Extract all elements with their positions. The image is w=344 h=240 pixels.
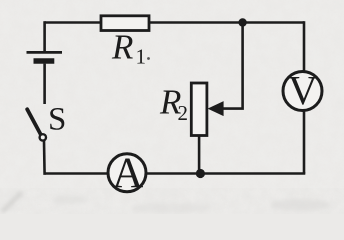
resistor R1 box xyxy=(101,16,149,31)
switch S blade xyxy=(27,109,41,135)
wire right lower (voltmeter down to bottom-right corner) xyxy=(303,112,306,174)
wire bottom right (bottom-right corner to ammeter) xyxy=(147,172,306,175)
wire left upper (top-left corner down to battery) xyxy=(43,21,46,51)
svg-text:A: A xyxy=(112,150,143,197)
label R1 xyxy=(111,28,150,69)
node A (top junction dot) xyxy=(238,18,246,26)
rheostat R2 box xyxy=(191,83,207,136)
svg-text:V: V xyxy=(288,67,318,113)
label R2 xyxy=(159,83,188,126)
node B (bottom junction dot) xyxy=(196,169,205,178)
switch S pivot circle xyxy=(40,134,46,140)
label S xyxy=(48,102,66,138)
ammeter A xyxy=(108,150,146,197)
rheostat R2 wiper arrowhead xyxy=(208,101,224,116)
svg-text:1: 1 xyxy=(136,45,147,69)
battery cell: short thick negative plate xyxy=(34,58,55,64)
voltmeter V xyxy=(283,67,322,113)
wire top (battery + to R1 to node A to top-right corner) xyxy=(45,21,304,24)
wire right upper (top-right corner down to voltmeter) xyxy=(303,21,306,70)
wire wiper (node A down then left to R2 arrow) xyxy=(223,23,243,109)
wire R2 bottom lead xyxy=(198,136,201,174)
wire bottom left (ammeter to bottom-left corner) xyxy=(45,172,108,175)
svg-text:R: R xyxy=(111,28,133,67)
svg-text:S: S xyxy=(48,102,66,138)
battery cell: long thin positive plate xyxy=(27,51,63,54)
wire left lower (switch pivot down to bottom-left corner) xyxy=(43,141,46,175)
wire battery to switch xyxy=(43,64,46,104)
svg-text:2: 2 xyxy=(178,101,189,125)
